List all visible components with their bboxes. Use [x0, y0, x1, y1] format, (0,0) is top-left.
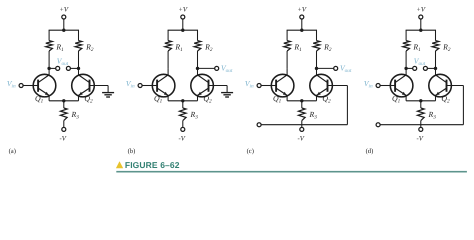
wire R2 bottom lead — [435, 51, 437, 68]
transistor Q1 — [152, 74, 175, 97]
resistor R2 — [313, 41, 320, 51]
terminal -V — [300, 127, 304, 131]
terminal input 2 — [257, 123, 261, 127]
svg-text:Q1: Q1 — [154, 94, 163, 104]
wire R1 bottom lead — [167, 51, 169, 68]
wire Q1 base — [261, 85, 276, 87]
wire R2 top lead — [197, 30, 199, 40]
terminal Vin — [257, 84, 261, 88]
svg-text:R1: R1 — [55, 42, 64, 52]
terminal -V — [62, 127, 66, 131]
wire R3 bottom lead — [63, 121, 65, 128]
transistor Q2 — [429, 74, 452, 97]
svg-text:Q2: Q2 — [84, 94, 93, 104]
terminal Vout right — [66, 66, 70, 70]
wire Vout left stub — [406, 67, 413, 69]
junction Q2 collector node — [434, 67, 437, 70]
wire Q2 base to ground — [209, 85, 228, 87]
wire R1 bottom lead — [48, 51, 50, 68]
resistor R2 — [75, 41, 82, 51]
svg-text:R2: R2 — [323, 42, 332, 52]
transistor Q2 — [72, 74, 95, 97]
resistor R1 — [403, 41, 410, 51]
wire R3 top lead — [420, 101, 422, 108]
wire +V to rail — [182, 19, 184, 30]
svg-text:-V: -V — [59, 135, 66, 142]
resistor R3 — [299, 108, 306, 121]
terminal Vin — [19, 84, 23, 88]
wire R1 top lead — [48, 30, 50, 40]
wire R1 bottom lead — [286, 51, 288, 68]
wire R1 top lead — [286, 30, 288, 40]
wire R3 top lead — [182, 101, 184, 108]
terminal Vout left — [56, 66, 60, 70]
wire R2 bottom lead — [78, 51, 80, 68]
junction top rail — [419, 29, 422, 32]
svg-text:+V: +V — [297, 7, 307, 14]
svg-text:Vout: Vout — [57, 57, 69, 67]
wire R3 top lead — [301, 101, 303, 108]
ground — [226, 86, 228, 93]
svg-text:Q1: Q1 — [392, 94, 401, 104]
svg-text:R2: R2 — [85, 42, 94, 52]
wire R3 top lead — [63, 101, 65, 108]
terminal Vout left — [413, 66, 417, 70]
wire input 2 vertical — [462, 86, 464, 125]
wire input 2 vertical — [346, 86, 348, 125]
terminal +V circuit (a) — [62, 15, 66, 19]
svg-text:Q1: Q1 — [35, 94, 44, 104]
wire R2 top lead — [78, 30, 80, 40]
svg-text:R3: R3 — [428, 110, 437, 120]
svg-text:Vin: Vin — [7, 79, 16, 89]
svg-text:R3: R3 — [190, 110, 199, 120]
svg-text:Q2: Q2 — [441, 94, 450, 104]
wire top rail — [287, 29, 317, 31]
wire Q2 base to input 2 (right) — [447, 85, 464, 87]
transistor Q1 — [271, 74, 294, 97]
terminal Vin — [138, 84, 142, 88]
junction Q2 collector node — [315, 67, 318, 70]
terminal Vout — [215, 66, 219, 70]
wire input 2 bottom — [380, 124, 463, 126]
junction Q1 collector node — [47, 67, 50, 70]
resistor R3 — [61, 108, 68, 121]
svg-text:Vout: Vout — [340, 64, 352, 74]
svg-text:+V: +V — [59, 7, 69, 14]
wire emitter rail — [287, 100, 316, 102]
junction emitters — [300, 99, 303, 102]
svg-text:+V: +V — [178, 7, 188, 14]
terminal Vout right — [423, 66, 427, 70]
junction emitters — [62, 99, 65, 102]
wire top rail — [49, 29, 79, 31]
svg-text:Vin: Vin — [245, 79, 254, 89]
terminal Vout — [334, 66, 338, 70]
caption rule — [116, 171, 467, 173]
resistor R2 — [194, 41, 201, 51]
junction emitters — [181, 99, 184, 102]
svg-text:Q1: Q1 — [273, 94, 282, 104]
svg-text:Vin: Vin — [126, 79, 135, 89]
wire R3 bottom lead — [301, 121, 303, 128]
svg-text:(c): (c) — [247, 148, 254, 155]
resistor R2 — [432, 41, 439, 51]
svg-text:R2: R2 — [204, 42, 213, 52]
wire +V to rail — [63, 19, 65, 30]
wire Q1 base — [23, 85, 38, 87]
junction top rail — [300, 29, 303, 32]
wire +V to rail — [301, 19, 303, 30]
terminal +V circuit (d) — [419, 15, 423, 19]
wire R3 bottom lead — [182, 121, 184, 128]
wire R2 top lead — [316, 30, 318, 40]
junction Q2 collector node — [196, 67, 199, 70]
svg-text:-V: -V — [416, 135, 423, 142]
svg-text:-V: -V — [178, 135, 185, 142]
wire top rail — [406, 29, 436, 31]
svg-text:R1: R1 — [293, 42, 302, 52]
svg-text:Vout: Vout — [414, 57, 426, 67]
svg-text:R3: R3 — [71, 110, 80, 120]
terminal +V circuit (b) — [181, 15, 185, 19]
wire +V to rail — [420, 19, 422, 30]
resistor R1 — [165, 41, 172, 51]
wire R2 top lead — [435, 30, 437, 40]
svg-text:+V: +V — [416, 7, 426, 14]
wire Q1 base — [142, 85, 157, 87]
transistor Q1 — [390, 74, 413, 97]
svg-text:FIGURE 6–62: FIGURE 6–62 — [125, 160, 180, 170]
wire R3 bottom lead — [420, 121, 422, 128]
wire Vout right stub — [70, 67, 78, 69]
terminal +V circuit (c) — [300, 15, 304, 19]
svg-text:(a): (a) — [9, 148, 16, 155]
wire Q2 base to input 2 (right) — [328, 85, 348, 87]
ground — [107, 86, 109, 93]
caption figure marker triangle — [116, 161, 123, 168]
terminal Vin — [376, 84, 380, 88]
wire top rail — [168, 29, 198, 31]
svg-text:(d): (d) — [366, 148, 374, 155]
wire Vout stub — [317, 67, 334, 69]
wire R2 bottom lead — [197, 51, 199, 68]
wire Q1 base — [380, 85, 395, 87]
wire Vout right stub — [427, 67, 435, 69]
resistor R3 — [418, 108, 425, 121]
resistor R1 — [46, 41, 53, 51]
transistor Q2 — [191, 74, 214, 97]
wire Vout left stub — [49, 67, 56, 69]
svg-text:-V: -V — [297, 135, 304, 142]
wire Vout stub — [198, 67, 215, 69]
terminal -V — [181, 127, 185, 131]
transistor Q2 — [310, 74, 333, 97]
wire emitter rail — [49, 100, 78, 102]
terminal input 2 — [376, 123, 380, 127]
wire R1 bottom lead — [405, 51, 407, 68]
terminal -V — [419, 127, 423, 131]
svg-text:R1: R1 — [174, 42, 183, 52]
svg-text:Vout: Vout — [221, 64, 233, 74]
wire emitter rail — [406, 100, 435, 102]
junction top rail — [181, 29, 184, 32]
wire R1 top lead — [167, 30, 169, 40]
junction Q2 collector node — [77, 67, 80, 70]
resistor R3 — [180, 108, 187, 121]
resistor R1 — [284, 41, 291, 51]
wire Q2 base to ground — [90, 85, 109, 87]
junction Q1 collector node — [404, 67, 407, 70]
svg-text:Q2: Q2 — [203, 94, 212, 104]
svg-text:R2: R2 — [442, 42, 451, 52]
svg-text:Q2: Q2 — [322, 94, 331, 104]
junction top rail — [62, 29, 65, 32]
wire R1 top lead — [405, 30, 407, 40]
transistor Q1 — [33, 74, 56, 97]
wire emitter rail — [168, 100, 197, 102]
wire input 2 bottom — [261, 124, 347, 126]
svg-text:Vin: Vin — [364, 79, 373, 89]
svg-text:(b): (b) — [128, 148, 136, 155]
svg-text:R3: R3 — [309, 110, 318, 120]
wire R2 bottom lead — [316, 51, 318, 68]
svg-text:R1: R1 — [412, 42, 421, 52]
junction emitters — [419, 99, 422, 102]
